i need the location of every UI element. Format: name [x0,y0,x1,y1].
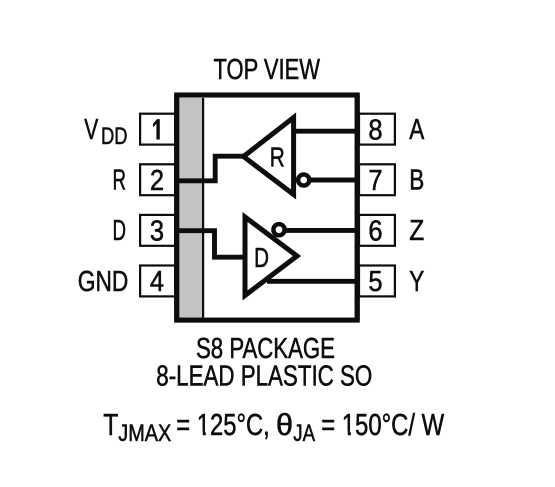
svg-text:TOP VIEW: TOP VIEW [214,54,321,86]
svg-text:DD: DD [101,123,128,150]
svg-text:JMAX: JMAX [118,420,171,447]
svg-text:A: A [409,114,424,146]
svg-text:5: 5 [368,266,382,298]
svg-text:8-LEAD PLASTIC SO: 8-LEAD PLASTIC SO [156,360,372,392]
svg-text:T: T [103,408,118,442]
svg-text:JA: JA [293,420,315,447]
svg-text:D: D [254,242,269,273]
svg-text:7: 7 [368,165,382,197]
svg-text:GND: GND [78,266,129,298]
svg-text:D: D [113,215,127,247]
svg-text:Z: Z [409,215,424,247]
svg-text:B: B [409,165,424,197]
svg-text:Y: Y [409,266,424,298]
svg-text:8: 8 [368,114,382,146]
svg-text:R: R [113,165,127,197]
svg-text:2: 2 [150,165,164,197]
svg-text:R: R [270,142,285,173]
svg-text:= 150°C/ W: = 150°C/ W [321,408,444,442]
svg-text:V: V [84,114,98,146]
svg-text:θ: θ [276,408,293,442]
svg-text:4: 4 [150,266,164,298]
svg-text:3: 3 [150,216,164,248]
svg-text:= 125°C,: = 125°C, [176,408,269,442]
svg-text:6: 6 [368,216,382,248]
